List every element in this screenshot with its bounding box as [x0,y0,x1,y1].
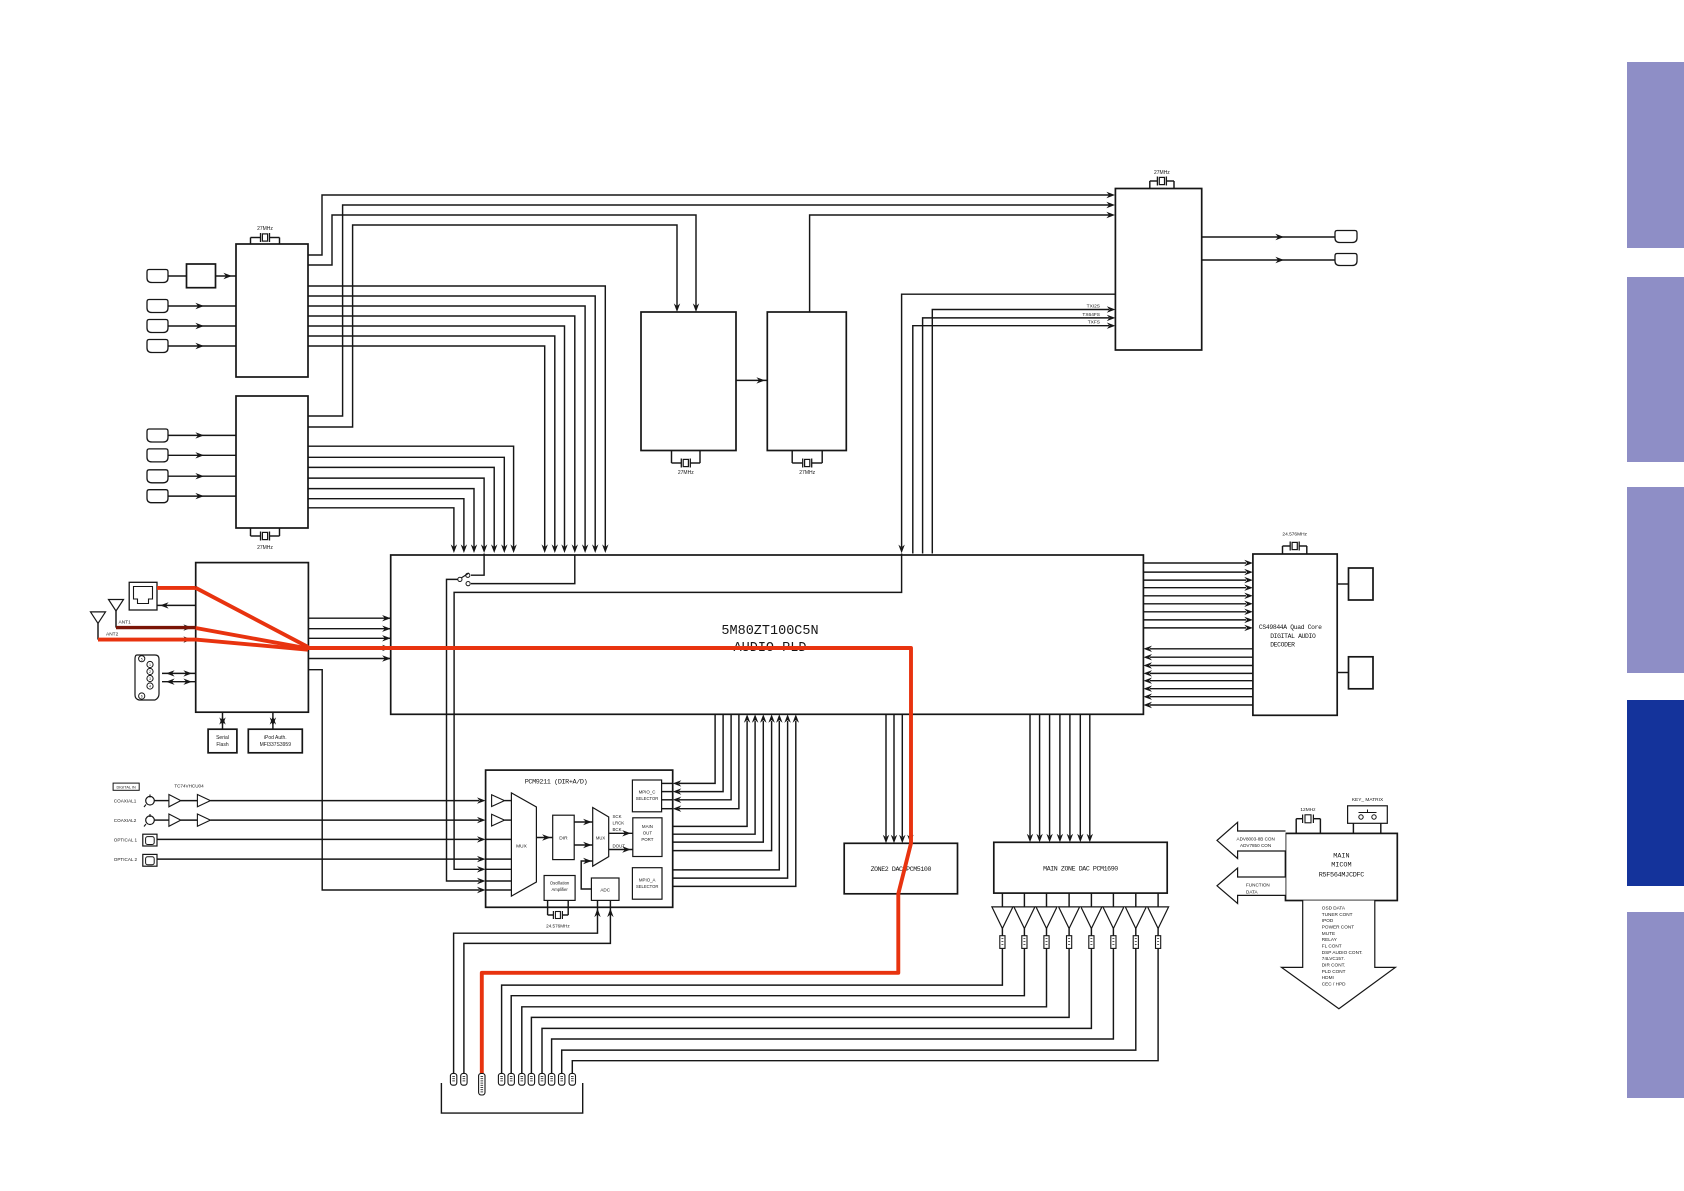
block arrow ADV8003-8B CON ADV7850 CON [1217,822,1286,858]
wire TX pin to PLD switch net [902,294,1116,547]
wire bus PCM9211 MPIO_A to PLD [662,721,779,870]
svg-text:24.576MHz: 24.576MHz [546,924,570,929]
op-amp buffer A1 [1001,893,1003,907]
wire buffer A1 to connector pin [502,948,1003,1073]
svg-text:MPIO_C: MPIO_C [639,790,656,795]
svg-text:SCK: SCK [613,814,622,819]
wire net bus y205 block2 to TX [308,205,1109,416]
IC block U1 HDMI receiver [236,244,308,377]
crystal X6 24.576MHz [1282,546,1284,554]
connector pin 1 [450,1073,456,1085]
svg-text:PORT: PORT [641,837,653,842]
IC MPIO_A SELECTOR [632,868,662,900]
wire bus block5 to PLD [308,617,390,619]
wire CN1 to block1 [216,275,237,277]
svg-text:MAIN: MAIN [642,824,653,829]
wire DIR to MUX2 b [574,844,593,846]
op-amp buffer A8 [1157,893,1159,907]
svg-text:Serial: Serial [216,735,229,741]
svg-text:DATA: DATA [1246,889,1259,894]
svg-text:RELAY: RELAY [1322,937,1338,942]
IC U13 PCM9211 DIR+AD [486,770,673,907]
connector pin 9 [548,1073,554,1085]
IC ADC block [591,878,619,900]
resistor R4 [1068,929,1070,936]
wire COAXIAL1 to PCM9211 [154,800,169,802]
connector pin 6 [519,1073,525,1085]
wire key matrix to MICOM [1352,823,1354,833]
svg-text:MICOM: MICOM [1331,862,1351,870]
buffer U12b [197,795,210,807]
connector CN8 [147,490,168,503]
op-amp buffer A7 [1135,893,1137,907]
connector pin 7 [528,1073,534,1085]
decor bar 5 [1627,912,1684,1098]
wire CN4 to block1 [168,345,236,347]
connector pin 2 [461,1073,467,1085]
connector pin 8 [539,1073,545,1085]
connector CN11 to amp board [441,1083,582,1113]
svg-text:OUT: OUT [643,831,653,836]
svg-text:Flash: Flash [216,742,228,748]
svg-text:Oscillation: Oscillation [550,881,570,886]
connector pin 3 [479,1073,485,1095]
connector CN3 [147,320,168,333]
IC iPod Auth U9 MFI337S3959 [248,729,302,753]
antenna ANT2 [91,612,106,624]
wire ANT1 to block5 [116,627,196,629]
svg-text:12MHz: 12MHz [1300,807,1316,813]
decor bar 4 [1627,700,1684,886]
svg-text:DSP AUDIO CONT.: DSP AUDIO CONT. [1322,950,1363,955]
wire buffer A4 to connector pin [531,948,1069,1073]
wire net y215 block1 to block3 [308,215,696,306]
svg-text:PCM9211 (DIR+A/D): PCM9211 (DIR+A/D) [525,779,588,787]
wire bus block2 to PLD [308,446,514,547]
svg-text:MUTE: MUTE [1322,931,1335,936]
svg-text:IPOD: IPOD [1322,918,1334,923]
connector pin 4 [498,1073,504,1085]
wire bus PLD to MAIN ZONE DAC [1029,714,1031,836]
svg-text:FUNCTION: FUNCTION [1246,882,1270,887]
IC DIR block [553,815,575,859]
wire block3 to block4 [736,379,767,381]
connector J2 DIN jack [135,655,159,700]
svg-text:SELECTOR: SELECTOR [636,796,659,801]
wire PCM9211 internal inputs to MUX [505,800,512,802]
mux M1 [511,793,536,896]
svg-text:3: 3 [149,677,151,681]
svg-text:5M80ZT100C5N: 5M80ZT100C5N [721,624,818,639]
svg-text:CS49844A Quad Core: CS49844A Quad Core [1259,624,1322,631]
connector pin 10 [559,1073,565,1085]
connector CN10 HDMI out 2 [1335,254,1357,266]
svg-text:74LVC157.: 74LVC157. [1322,956,1345,961]
wire bus PLD to ZONE2 DAC [885,714,887,837]
crystal X2 27MHz [250,528,252,536]
svg-text:R5F564MJCDFC: R5F564MJCDFC [1319,872,1365,880]
svg-text:PLD CONT: PLD CONT [1322,969,1346,974]
wire TX output 1 [1202,236,1335,238]
svg-text:DECODER: DECODER [1270,641,1295,648]
wire switch throw to block1 pin [471,555,575,584]
wire COAXIAL2 to PCM9211 [154,819,169,821]
wire buffer A5 to connector pin [542,948,1091,1073]
connector CN9 HDMI out 1 [1335,231,1357,243]
IC U14 ZONE2 DAC PCM5100 [844,843,957,894]
svg-text:6: 6 [141,695,143,699]
wire block5 to serial flash [222,712,224,729]
decor bar 1 [1627,62,1684,248]
svg-text:ADV8003-8B CON: ADV8003-8B CON [1237,836,1275,841]
svg-text:27MHz: 27MHz [257,545,273,551]
resistor R1 [1001,929,1003,936]
wire MUX to DIR [536,837,552,839]
svg-text:5: 5 [141,657,143,661]
buffer PCM9211 in2 [492,814,505,826]
op-amp buffer A6 [1112,893,1114,907]
wire bus PLD to PCM9211 MPIO_C [679,714,715,783]
svg-text:MFI337S3959: MFI337S3959 [260,742,292,748]
connector CN5 [147,429,168,442]
IC block U6 HDMI transmitter [1115,189,1201,351]
svg-text:MPIO_A: MPIO_A [639,878,656,883]
svg-text:OPTICAL 1: OPTICAL 1 [114,837,138,842]
connector pin 11 [569,1073,575,1085]
resistor R3 [1046,929,1048,936]
op-amp buffer A4 [1068,893,1070,907]
wire net red iPod audio path [98,588,911,1073]
resistor R8 [1157,929,1159,936]
wire CN5 to block2 [168,434,236,436]
wire CN6 to block2 [168,454,236,456]
svg-text:BCK: BCK [613,827,622,832]
switch SW1 input select [466,573,470,577]
connector J1 iPod dock [129,582,157,610]
wire net dark red ANT1 path [116,626,196,629]
IC Serial Flash U8 [208,729,237,753]
IC MPIO_C SELECTOR [632,780,661,812]
svg-text:KEY_ MATRIX: KEY_ MATRIX [1352,797,1384,803]
svg-text:COAXIAL2: COAXIAL2 [114,818,137,823]
wire OPTICAL2 to PCM9211 [157,858,479,860]
buffer U12d [197,814,210,826]
IC block U3 HDMI receiver [236,396,308,528]
svg-text:TX64FS: TX64FS [1082,312,1100,318]
svg-text:2: 2 [149,670,151,674]
wire block2 to PLD and PCM9211 RXIN [308,508,454,547]
svg-text:OSD DATA: OSD DATA [1322,906,1346,911]
wire buffer A3 to connector pin [522,948,1047,1073]
block arrow MICOM control outputs [1282,901,1396,1009]
wire buffer A7 to connector pin [562,948,1136,1073]
svg-text:FL CONT: FL CONT [1322,943,1342,948]
IC U10 5M80ZT100C5N AUDIO PLD [391,555,1144,714]
svg-text:ADC: ADC [600,888,610,893]
wire node TXFS [913,326,1109,554]
svg-text:HDMI: HDMI [1322,975,1334,980]
wire block5 to iPod auth [272,712,274,729]
mux M2 [593,808,609,867]
svg-text:ADV7850 CON: ADV7850 CON [1240,843,1271,848]
buffer PCM9211 in1 [492,795,505,807]
wire MPIO_C stubs [662,782,673,784]
wire connector pin1 to ADC [454,908,598,1074]
IC memory block B [1337,672,1348,674]
crystal X5 27MHz [1149,181,1151,189]
wire TX output 2 [1202,259,1335,261]
IC U11 CS49844A decoder [1253,554,1337,715]
block arrow FUNCTION DATA [1217,868,1286,904]
svg-text:POWER CONT: POWER CONT [1322,924,1354,929]
connector CN4 [147,340,168,353]
wire node TX64FS [923,318,1109,554]
svg-text:iPod Auth.: iPod Auth. [264,735,287,741]
op-amp buffer A2 [1023,893,1025,907]
wire connector pin2 to ADC [464,908,611,1074]
wire block5 to PCM9211 input [308,670,479,890]
crystal X8 12MHz [1295,819,1297,834]
wire net y215 block4 to TX [810,215,1109,312]
wire PLD pin to switch common [471,554,484,576]
svg-text:DIR: DIR [559,836,568,842]
svg-text:TC74VHCU04: TC74VHCU04 [174,783,204,788]
resistor R7 [1135,929,1137,936]
svg-text:MAIN ZONE DAC PCM1690: MAIN ZONE DAC PCM1690 [1043,866,1118,873]
svg-text:MUX: MUX [596,836,606,841]
svg-text:27MHz: 27MHz [1154,170,1170,176]
connector CN6 [147,449,168,462]
wire buffer A2 to connector pin [511,948,1024,1073]
crystal X1 27MHz [250,238,252,245]
svg-text:27MHz: 27MHz [799,470,815,476]
wire net HDMI bus y195 block1 to TX [308,195,1109,255]
wire block5 to iPod dock [157,604,196,606]
wire CN8 to block2 [168,495,236,497]
svg-text:ANT1: ANT1 [119,620,132,626]
wire switch pole down to PCM9211 [447,579,480,881]
svg-text:27MHz: 27MHz [678,470,694,476]
wire bus PLD to CS49844A [1143,562,1246,564]
IC U16 MAIN MICOM R5F564MJCDFC [1286,833,1398,900]
wire MUX2 to MAIN OUT PORT [609,832,633,834]
svg-text:LRCK: LRCK [613,821,625,826]
buffer U12a [169,795,181,807]
svg-text:DIR CONT.: DIR CONT. [1322,962,1345,967]
IC U15 MAIN ZONE DAC PCM1690 [994,842,1167,893]
svg-text:27MHz: 27MHz [257,226,273,232]
svg-text:CEC / HPD: CEC / HPD [1322,981,1346,986]
wire CN3 to block1 [168,325,236,327]
svg-text:24.576MHz: 24.576MHz [1282,532,1307,538]
connector CN7 [147,470,168,483]
wire DIN to block5 b [162,681,196,683]
crystal X7 24.576MHz [547,900,549,915]
svg-text:ANT2: ANT2 [106,632,119,638]
connector CN1 [147,270,168,283]
svg-text:SELECTOR: SELECTOR [636,884,659,889]
svg-text:DIGITAL AUDIO: DIGITAL AUDIO [1270,633,1316,640]
wire DOUT to MAIN OUT PORT [609,849,633,851]
wire CN7 to block2 [168,475,236,477]
IC block U7 network iPod tuner module [196,563,309,713]
wire ADC to MUX2 [581,861,593,889]
wire OPTICAL1 to PCM9211 [157,838,479,840]
IC block U5 video encoder [767,312,846,451]
IC Oscillation Amplifier [544,876,575,901]
wire bus CS49844A to PLD [1150,648,1253,650]
antenna ANT1 [109,600,124,612]
svg-text:TXFS: TXFS [1088,320,1100,326]
wire bus block1 to PLD [308,286,605,547]
buffer U12c [169,814,181,826]
svg-text:TUNER CONT: TUNER CONT [1322,912,1353,917]
wire DIR to MUX2 a [574,821,593,823]
svg-text:DOUT: DOUT [613,844,626,849]
IC block U4 video processor [641,312,736,451]
svg-text:DIGITAL IN: DIGITAL IN [116,785,135,789]
decor bar 2 [1627,277,1684,462]
buffer box U2 [168,275,187,277]
op-amp buffer A5 [1090,893,1092,907]
crystal X4 27MHz [791,451,793,464]
label DIGITAL IN [113,783,139,790]
wire CN2 to block1 [168,305,236,307]
svg-text:ZONE2 DAC PCM5100: ZONE2 DAC PCM5100 [871,866,932,873]
svg-text:OPTICAL 2: OPTICAL 2 [114,857,138,862]
svg-text:MUX: MUX [516,844,527,850]
wire buffer A8 to connector pin [572,948,1158,1073]
svg-text:1: 1 [149,663,151,667]
connector CN2 [147,300,168,313]
resistor R6 [1112,929,1114,936]
crystal X3 27MHz [671,451,673,464]
svg-text:4: 4 [149,685,151,689]
wire bus PCM9211 MAIN OUT to PLD [662,721,747,826]
IC MAIN OUT PORT [633,818,662,857]
connector pin 5 [508,1073,514,1085]
svg-text:Amplifier: Amplifier [551,887,568,892]
wire net y225 block2 to block3 [308,225,677,427]
resistor R5 [1090,929,1092,936]
decor bar 3 [1627,487,1684,673]
resistor R2 [1023,929,1025,936]
wire TX net to PCM9211 [454,554,901,870]
svg-text:TXI2S: TXI2S [1087,304,1100,310]
wire DIN to block5 a [162,672,196,674]
svg-text:COAXIAL1: COAXIAL1 [114,799,137,804]
IC memory block A [1337,583,1348,585]
op-amp buffer A3 [1046,893,1048,907]
wire ANT2 to block5 [98,639,196,641]
svg-text:MAIN: MAIN [1333,853,1349,861]
wire buffer A6 to connector pin [552,948,1114,1073]
wire node TXI2S [932,310,1109,554]
